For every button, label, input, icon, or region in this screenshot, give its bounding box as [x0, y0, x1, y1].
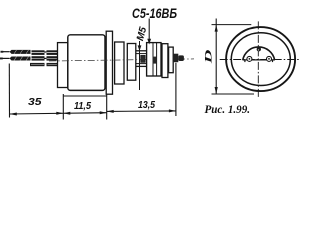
flange disc	[106, 31, 112, 94]
shaft end	[174, 54, 184, 63]
svg-text:Рис. 1.99.: Рис. 1.99.	[205, 104, 251, 116]
dimension line 13,5	[107, 110, 176, 113]
threaded shaft M5	[136, 51, 147, 67]
main body	[68, 35, 105, 91]
svg-text:13,5: 13,5	[138, 99, 155, 111]
washer D	[169, 47, 174, 73]
lead bead 2 top	[44, 50, 58, 55]
washer C	[162, 44, 168, 78]
dome base line	[243, 59, 275, 61]
terminal eyelet right	[267, 56, 272, 61]
wire lead top	[1, 51, 10, 53]
svg-text:С5-16ВБ: С5-16ВБ	[132, 6, 177, 21]
extension line flange	[106, 94, 108, 120]
lead bead 1 bottom	[32, 56, 45, 60]
center line (horizontal axis, side view)	[49, 59, 194, 61]
lower terminal bead row 2	[47, 63, 59, 66]
terminal tab right	[272, 60, 274, 62]
nut	[147, 43, 161, 76]
lock washer on shaft	[141, 55, 146, 62]
M5 leader line with arrow	[138, 41, 142, 90]
extension line left (lead tip)	[8, 64, 10, 118]
leader arrow from label	[147, 19, 151, 45]
arrowheads dim 13,5	[107, 110, 114, 113]
svg-text:35: 35	[28, 96, 42, 108]
outer circle	[226, 27, 295, 91]
extension line shaft end	[175, 63, 177, 116]
lead bead 2 bottom	[44, 56, 58, 60]
washer B	[127, 44, 136, 81]
lower terminal bead row 1	[30, 63, 45, 66]
arrowheads dim 11,5	[63, 112, 70, 115]
top screw hole	[257, 47, 261, 51]
washer A	[115, 42, 124, 84]
lead bead 1 top	[32, 50, 45, 55]
svg-text:D: D	[204, 49, 214, 66]
terminal tab left	[244, 60, 246, 62]
terminal eyelet left	[247, 56, 252, 61]
dimension line 35 / 11,5	[9, 113, 106, 114]
horizontal center line	[220, 59, 300, 61]
wire lead bottom	[0, 58, 10, 60]
end cap (left)	[58, 43, 68, 88]
extension line cap face	[62, 94, 64, 120]
inner circle	[231, 33, 290, 86]
vertical center line	[257, 21, 259, 97]
D dimension line	[212, 19, 255, 95]
svg-text:11,5: 11,5	[74, 100, 91, 112]
lead sleeve top (hatched bar)	[10, 50, 31, 54]
terminal dome arc	[243, 47, 275, 60]
bracket line under body	[63, 95, 106, 97]
lead sleeve bottom (hatched bar)	[10, 57, 31, 61]
arrowheads dim 35	[9, 113, 16, 116]
